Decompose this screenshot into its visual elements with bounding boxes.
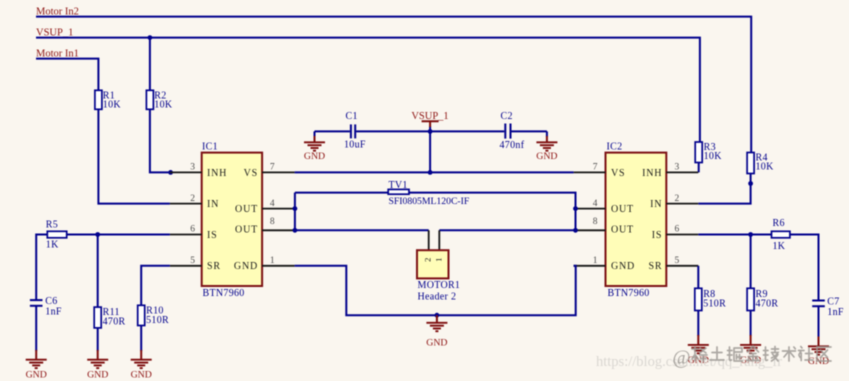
svg-text:C2: C2 [501, 111, 513, 122]
svg-text:10K: 10K [103, 100, 122, 111]
wire IS net IC1 [67, 234, 170, 236]
wire VSUP to R2 [149, 38, 151, 91]
wire C1 C2 rail [315, 130, 547, 132]
junction R4 bottom [748, 181, 753, 186]
svg-text:IS: IS [207, 230, 218, 241]
svg-text:2: 2 [675, 194, 680, 204]
capacitor C1 [344, 111, 366, 150]
resistor R11 [94, 307, 125, 328]
svg-text:3: 3 [675, 163, 680, 173]
svg-text:GND: GND [26, 370, 47, 381]
ground right of C2 [536, 131, 557, 161]
wire VSUP_1 [36, 38, 700, 142]
svg-text:2: 2 [190, 194, 195, 204]
pin 7 VS IC2 [574, 163, 626, 179]
pin 1 GND IC2 [574, 256, 635, 272]
svg-text:470R: 470R [756, 299, 779, 310]
pin 6 IS IC1 [170, 225, 218, 241]
svg-text:BTN7960: BTN7960 [608, 288, 650, 299]
svg-text:6: 6 [190, 225, 195, 235]
ground under R10 [131, 350, 152, 381]
pin 2 IN IC2 [650, 194, 698, 210]
svg-text:C6: C6 [45, 296, 57, 307]
pin 5 SR IC1 [170, 256, 221, 272]
wire VSUP vertical [429, 126, 431, 172]
svg-text:IS: IS [652, 230, 663, 241]
junction IS/R11 [95, 232, 100, 237]
pin 2 IN IC1 [170, 194, 219, 210]
pin 8 OUT IC1 [235, 217, 295, 236]
connector MOTOR1 body [417, 250, 449, 278]
wire C7 to gnd [818, 306, 820, 337]
pin 6 IS IC2 [652, 225, 699, 241]
wire R11 to gnd [97, 328, 99, 351]
svg-text:8: 8 [270, 217, 275, 227]
wire SR IC1 to R10 [141, 266, 170, 306]
junction OUT4 IC2 [573, 206, 578, 211]
pin 5 SR IC2 [648, 256, 698, 272]
wire GND rail bottom [295, 266, 576, 315]
svg-text:IC1: IC1 [202, 141, 218, 152]
pin 4 OUT IC1 [235, 199, 295, 215]
svg-text:7: 7 [593, 163, 598, 173]
svg-text:GND: GND [87, 370, 108, 381]
svg-text:4: 4 [270, 199, 275, 209]
svg-text:10K: 10K [154, 100, 173, 111]
junction GND rail [435, 313, 440, 318]
svg-text:@: @ [673, 348, 691, 369]
svg-text:5: 5 [190, 256, 195, 266]
svg-text:IN: IN [207, 199, 219, 210]
pin 3 INH IC1 [170, 163, 227, 179]
op-amp IC2 body [606, 153, 667, 286]
resistor R3 [695, 142, 722, 163]
svg-text:C7: C7 [827, 296, 839, 307]
wire OUT tie IC1 [294, 193, 296, 231]
wire to TV1 [295, 192, 388, 194]
resistor R8 [695, 288, 726, 310]
ground under MOTOR1 [426, 315, 447, 348]
resistor R5 [46, 219, 67, 250]
svg-text:8: 8 [593, 217, 598, 227]
wire Motor In1 [36, 59, 98, 91]
svg-text:GND: GND [426, 338, 447, 349]
capacitor C6 [30, 296, 62, 318]
ground under C7 [808, 337, 829, 368]
ground under C6 [26, 350, 47, 381]
watermark chinese characters [692, 346, 831, 361]
svg-text:TV1: TV1 [389, 180, 408, 191]
svg-text:1: 1 [593, 256, 598, 266]
resistor R1 [95, 90, 121, 110]
pin 4 OUT IC2 [574, 199, 634, 215]
svg-text:1K: 1K [773, 241, 786, 252]
pin 1 GND IC1 [234, 256, 295, 272]
junction OUT4 IC1 [293, 206, 298, 211]
junction VSUP/C line [428, 129, 433, 134]
svg-text:OUT: OUT [235, 204, 258, 215]
inductor TV1 [388, 180, 470, 207]
junction VS/VSUP [428, 170, 433, 175]
svg-text:1nF: 1nF [827, 307, 844, 318]
svg-text:Header 2: Header 2 [418, 291, 457, 302]
svg-text:7: 7 [270, 163, 275, 173]
svg-text:OUT: OUT [611, 204, 634, 215]
svg-text:10K: 10K [704, 151, 723, 162]
svg-text:1nF: 1nF [45, 306, 62, 317]
wire C6 to gnd [35, 306, 37, 351]
power symbol VSUP_1 [411, 111, 448, 127]
svg-text:OUT: OUT [611, 225, 634, 236]
pin 2 MOTOR1 [428, 230, 430, 250]
svg-text:IN: IN [650, 199, 662, 210]
svg-text:5: 5 [675, 256, 680, 266]
svg-text:GND: GND [304, 151, 325, 162]
svg-text:510R: 510R [146, 315, 169, 326]
svg-text:SFI0805ML120C-IF: SFI0805ML120C-IF [389, 196, 470, 207]
svg-text:6: 6 [675, 225, 680, 235]
svg-text:10K: 10K [756, 162, 775, 173]
resistor R9 [747, 288, 778, 310]
wire R3 to INH IC2 [698, 163, 700, 173]
capacitor C7 [812, 296, 844, 318]
svg-text:SR: SR [207, 261, 221, 272]
wire IS to R11 [97, 235, 99, 308]
wire R10 to gnd [140, 326, 142, 352]
junction VSUP/R2 [148, 35, 153, 40]
junction INH IC1 [168, 170, 173, 175]
svg-text:GND: GND [536, 151, 557, 162]
svg-text:R6: R6 [773, 218, 785, 229]
svg-text:10uF: 10uF [344, 140, 366, 151]
wire R2 to INH pin [150, 109, 170, 172]
wire R9 to gnd [750, 311, 752, 337]
svg-text:2: 2 [423, 258, 433, 262]
ground under R9 [740, 335, 761, 366]
svg-text:SR: SR [648, 261, 662, 272]
wire R1 to IN pin [98, 109, 169, 203]
pin 1 MOTOR1 [438, 230, 440, 250]
svg-text:VS: VS [611, 168, 625, 179]
svg-text:4: 4 [593, 199, 598, 209]
wire OUT8 IC1 to motor [295, 229, 429, 231]
wire VS net IC1 to IC2 [295, 171, 574, 173]
svg-text:GND: GND [234, 261, 258, 272]
ground under R8 [688, 335, 709, 366]
svg-text:470R: 470R [103, 317, 126, 328]
resistor R10 [138, 305, 169, 326]
wire R6 to C7 [790, 235, 819, 301]
wire IS to R9 [750, 235, 752, 289]
junction OUT8 IC1 [293, 228, 298, 233]
wire Motor In2 [36, 17, 751, 153]
wire R8 to gnd [697, 311, 699, 337]
svg-text:BTN7960: BTN7960 [203, 288, 245, 299]
junction IS/R9 [748, 232, 753, 237]
svg-text:INH: INH [207, 168, 227, 179]
svg-text:3: 3 [190, 163, 195, 173]
capacitor C2 [500, 111, 525, 151]
resistor R6 [772, 218, 790, 252]
svg-text:GND: GND [611, 261, 635, 272]
svg-text:1: 1 [433, 258, 443, 262]
wire IS net IC2 [698, 234, 771, 236]
resistor R2 [146, 90, 172, 110]
pin 3 INH IC2 [642, 163, 698, 179]
svg-text:C1: C1 [346, 111, 358, 122]
svg-text:GND: GND [131, 370, 152, 381]
ground left of C1 [304, 131, 325, 161]
svg-text:OUT: OUT [235, 225, 258, 236]
wire OUT8 IC2 to motor [439, 229, 575, 231]
resistor R4 [747, 153, 774, 174]
svg-text:1: 1 [270, 256, 275, 266]
wire TV1 to IC2 [409, 193, 576, 231]
ground under R11 [87, 350, 108, 381]
pin 8 OUT IC2 [574, 217, 634, 236]
svg-text:INH: INH [642, 168, 662, 179]
svg-text:R5: R5 [46, 219, 58, 230]
wire R4 to IN IC2 [698, 174, 750, 204]
svg-text:510R: 510R [703, 299, 726, 310]
wire SR IC2 to R8 [697, 266, 699, 289]
svg-text:IC2: IC2 [607, 141, 623, 152]
svg-text:MOTOR1: MOTOR1 [418, 280, 461, 291]
svg-text:1K: 1K [46, 239, 59, 250]
op-amp IC1 body [202, 153, 262, 286]
wire R5 left to C6 [36, 235, 47, 300]
pin 7 VS IC1 [244, 163, 295, 179]
junction OUT8 IC2 [573, 228, 578, 233]
svg-text:VS: VS [244, 168, 258, 179]
svg-text:470nf: 470nf [500, 140, 525, 151]
